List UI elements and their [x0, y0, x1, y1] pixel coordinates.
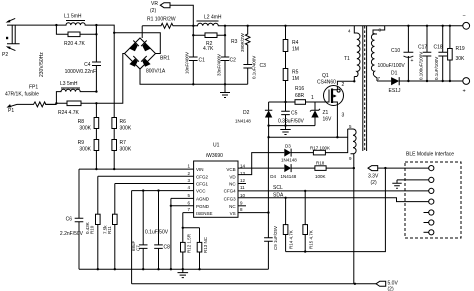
svg-text:R5: R5 [292, 70, 299, 76]
svg-text:VIN: VIN [196, 167, 204, 172]
svg-text:1N4148: 1N4148 [281, 174, 297, 179]
wire L1 node to jog [96, 25, 114, 33]
svg-text:NC: NC [229, 204, 236, 209]
wire CFG2 corner down to R10 [97, 176, 99, 269]
svg-text:R15 4.7K: R15 4.7K [309, 230, 314, 249]
wire HV column down [95, 103, 97, 117]
junction R7/VIN [113, 168, 115, 170]
zener Z1 [310, 102, 332, 126]
wire bridge top corner riser [141, 26, 143, 38]
T1 secondary winding [371, 34, 377, 81]
junction R12/gnd [182, 268, 184, 270]
capacitor C8 [145, 191, 170, 270]
junction R20 right [95, 33, 97, 35]
svg-text:1N4148: 1N4148 [281, 157, 297, 162]
svg-text:3.3V: 3.3V [368, 174, 379, 180]
svg-text:R20 4.7K: R20 4.7K [64, 41, 86, 47]
BLE module interface box [405, 152, 461, 239]
svg-text:11: 11 [240, 185, 245, 190]
bridge rectifier BR1 [125, 38, 170, 75]
wire drain to primary [337, 77, 354, 86]
test point VR [150, 1, 193, 26]
resistor R12 [181, 228, 192, 269]
junction SCL/R15 [304, 190, 306, 192]
VIN row wire [79, 168, 194, 170]
3.3V pullup rail [286, 168, 386, 252]
junction C18 top [442, 25, 444, 27]
junction R3 top [247, 25, 249, 27]
diode D3 [281, 144, 313, 163]
wire bridge bottom to DC- rail [140, 69, 248, 84]
svg-text:0.33uF/50V: 0.33uF/50V [278, 119, 305, 125]
svg-text:47R/1K, fusible: 47R/1K, fusible [5, 92, 39, 98]
svg-text:L1 5mH: L1 5mH [64, 14, 82, 20]
svg-text:C9 1uF/25V: C9 1uF/25V [273, 226, 278, 250]
CFG2 row wire [98, 175, 194, 177]
capacitor C1 [185, 35, 206, 84]
BLE pin 5 [424, 210, 434, 215]
svg-text:PGND: PGND [196, 204, 210, 209]
svg-text:VCB: VCB [226, 167, 235, 172]
junction C17 bottom [426, 80, 428, 82]
svg-text:R8: R8 [78, 119, 85, 125]
svg-text:390R/2W: 390R/2W [240, 32, 245, 52]
svg-text:R7: R7 [120, 140, 127, 146]
secondary pin 8 hook [373, 26, 385, 34]
svg-text:VR: VR [151, 1, 158, 7]
svg-text:ES1J: ES1J [389, 88, 401, 94]
svg-text:2: 2 [342, 82, 345, 88]
junction C17 top [426, 25, 428, 27]
wire AC2 to bridge left corner [96, 54, 124, 104]
svg-text:0.1uF/50V: 0.1uF/50V [145, 230, 169, 236]
resistor R15 [303, 191, 314, 252]
svg-text:R9: R9 [78, 140, 85, 146]
junction aux/5V rail [354, 283, 356, 285]
svg-text:P1: P1 [8, 108, 14, 114]
junction R10/gnd [97, 268, 99, 270]
svg-text:C5: C5 [291, 111, 298, 117]
svg-text:CFG1: CFG1 [196, 182, 208, 187]
capacitor C4 [65, 25, 101, 92]
transformer T1 [344, 26, 382, 169]
resistor R9 [78, 140, 99, 153]
junction drain/primary [353, 80, 355, 82]
svg-text:300K: 300K [120, 126, 132, 132]
junction VS node [267, 136, 269, 138]
CFG1 row wire [115, 183, 194, 185]
junction R2 left [192, 34, 194, 36]
AGND row wire [171, 197, 194, 199]
diode D2 [235, 102, 272, 126]
resistor R14 [283, 198, 293, 252]
wire CFG1 corner down to R11 [114, 184, 116, 270]
junction R19 bottom [449, 80, 451, 82]
ground primary [220, 84, 230, 97]
wire R6-R7 [113, 129, 115, 140]
U1 pin 9 stub [238, 205, 246, 207]
junction L3 left [55, 102, 57, 104]
BLE pin1 wire [385, 167, 428, 169]
junction PGND [170, 205, 172, 207]
svg-text:SDA: SDA [273, 193, 284, 199]
svg-text:R17 100K: R17 100K [310, 146, 330, 151]
svg-text:FP1: FP1 [29, 85, 38, 91]
junction D2 bottom [267, 124, 269, 126]
junction R18/aux [353, 167, 355, 169]
capacitor C5 [278, 102, 305, 126]
IC U1 iW3690 [187, 143, 246, 218]
svg-text:(2): (2) [371, 180, 377, 186]
resistor R16 [295, 86, 306, 104]
ISENSE row wire [183, 213, 194, 228]
BLE pin 2 [429, 177, 434, 182]
svg-text:R24 4.7K: R24 4.7K [58, 110, 80, 116]
svg-text:R13 NC: R13 NC [203, 236, 208, 253]
resistor R17 [310, 146, 346, 155]
junction R24 right [95, 102, 97, 104]
svg-text:30K: 30K [456, 56, 466, 62]
resistor R6 [112, 118, 132, 132]
analog ground rail [79, 268, 268, 270]
svg-text:L3 5mH: L3 5mH [60, 81, 78, 87]
svg-text:VCC: VCC [196, 189, 206, 194]
svg-text:1M: 1M [292, 47, 299, 53]
output terminal minus [463, 14, 470, 30]
junction R4 top [284, 25, 286, 27]
wire aux bottom down [353, 168, 355, 284]
wire R9 to VIN row [95, 151, 97, 170]
junction C2 bottom [224, 83, 226, 85]
inductor L2 [193, 15, 225, 26]
junction VS/C9 [267, 211, 269, 213]
connector P2 [2, 18, 21, 58]
resistor R10 [85, 214, 100, 234]
wire AGND/PGND column [170, 198, 172, 269]
svg-text:230V/50Hz: 230V/50Hz [39, 52, 45, 77]
junction R9/VIN [95, 168, 97, 170]
transistor Q1 [317, 73, 344, 106]
T1 core [363, 26, 367, 151]
BLE pin 7 [424, 230, 434, 235]
ground main [178, 269, 189, 277]
wire R7 to VIN row [113, 151, 115, 170]
wire AC1 column down [113, 33, 115, 118]
junction 3.3V node [384, 167, 386, 169]
svg-text:C10: C10 [391, 48, 400, 54]
junction C5 bottom [284, 124, 286, 126]
wire VCC corner down to 5V rail [131, 191, 133, 284]
junction R15/rail [304, 250, 306, 252]
svg-text:D4: D4 [270, 174, 276, 179]
gate clamp bottom wire [269, 125, 315, 127]
VD wire up to D3 [238, 153, 284, 175]
junction R2 right [224, 34, 226, 36]
svg-text:R18: R18 [316, 161, 325, 166]
svg-text:C1: C1 [199, 58, 206, 64]
resistor R24 [56, 101, 96, 116]
capacitor C3 [243, 56, 266, 85]
resistor R1 [142, 17, 193, 29]
junction C8/gnd [157, 268, 159, 270]
svg-text:BLE Module Interface: BLE Module Interface [406, 152, 454, 158]
svg-text:−: − [463, 14, 466, 20]
svg-text:R4: R4 [292, 40, 299, 46]
diode D1 [377, 71, 463, 95]
svg-text:16V: 16V [323, 117, 333, 123]
svg-text:4.7K: 4.7K [203, 46, 214, 52]
resistor R5 [283, 69, 299, 103]
svg-text:R6: R6 [120, 119, 127, 125]
wire from P2 to L1 node [21, 24, 56, 26]
svg-text:10: 10 [240, 193, 246, 198]
resistor R8 [78, 118, 99, 132]
connector P1 [7, 104, 18, 114]
svg-text:13: 13 [240, 171, 246, 176]
capacitor C7 [131, 191, 148, 270]
svg-text:D3: D3 [285, 144, 291, 149]
VCC row wire [132, 190, 194, 192]
svg-text:P2: P2 [2, 52, 8, 58]
junction source/aux row [336, 136, 338, 138]
wire source down [336, 105, 338, 137]
svg-text:C2: C2 [230, 58, 237, 64]
svg-text:1M: 1M [292, 76, 299, 82]
svg-text:+: + [463, 89, 466, 95]
junction L1 right [95, 24, 97, 26]
junction C10 top [407, 25, 409, 27]
capacitor C10 [378, 26, 414, 81]
junction rail/L2 left [192, 25, 194, 27]
ground gate clamp [280, 126, 290, 135]
svg-text:AGND: AGND [196, 197, 210, 202]
junction node L1 left [55, 24, 57, 26]
resistor R18 [315, 161, 354, 179]
inductor L1 [56, 14, 96, 26]
junction AC1 [113, 32, 115, 34]
svg-text:L2 4mH: L2 4mH [204, 15, 222, 21]
wire FP1 to L3 node [45, 103, 56, 105]
svg-text:2.2nF/50V: 2.2nF/50V [60, 231, 84, 237]
capacitor C18 [434, 26, 448, 81]
capacitor C17 [418, 26, 431, 81]
svg-text:R1 100R/2W: R1 100R/2W [147, 17, 176, 23]
resistor R19 [448, 26, 465, 81]
junction gate row / R5 bottom [284, 101, 286, 103]
T1 aux winding [348, 129, 356, 169]
svg-text:300K: 300K [120, 147, 132, 153]
svg-text:BR1: BR1 [160, 56, 170, 62]
svg-text:C8: C8 [164, 245, 171, 251]
svg-text:C4: C4 [84, 62, 91, 68]
sense node wire [183, 227, 200, 229]
svg-text:R19: R19 [456, 46, 465, 52]
svg-text:3: 3 [342, 113, 345, 119]
U1 pin 12 stub [238, 183, 246, 185]
junction AGND col/gnd [170, 268, 172, 270]
svg-text:VS: VS [230, 211, 236, 216]
svg-text:68R: 68R [295, 93, 305, 99]
svg-text:NC: NC [229, 182, 236, 187]
wire VIN corner down through C6 [78, 169, 80, 269]
svg-text:R16: R16 [295, 86, 304, 92]
svg-text:CS4N60: CS4N60 [317, 80, 336, 86]
junction R11/gnd [114, 268, 116, 270]
svg-text:1000V/0.22nF: 1000V/0.22nF [65, 69, 96, 75]
resistor R4 [283, 26, 299, 69]
svg-text:CFG3: CFG3 [224, 197, 236, 202]
svg-text:800V/1A: 800V/1A [146, 69, 166, 75]
BLE pin 1 [429, 166, 434, 171]
svg-text:100K: 100K [315, 174, 326, 179]
svg-text:+: + [411, 58, 414, 64]
ground BLE [392, 180, 401, 188]
svg-text:Z1: Z1 [323, 110, 329, 116]
junction R13/gnd [198, 268, 200, 270]
svg-text:C7: C7 [136, 245, 141, 251]
svg-text:300K: 300K [79, 126, 91, 132]
svg-text:100uF/100V: 100uF/100V [378, 63, 406, 69]
svg-text:T1: T1 [344, 56, 350, 62]
svg-text:D1: D1 [391, 71, 398, 77]
svg-text:(2): (2) [150, 8, 156, 14]
SCL wire [238, 190, 429, 192]
svg-text:10nF/400V: 10nF/400V [185, 52, 190, 74]
junction L2 right [224, 25, 226, 27]
BLE pin 6 [424, 220, 434, 225]
svg-text:CFG4: CFG4 [224, 189, 236, 194]
svg-text:300K: 300K [79, 147, 91, 153]
junction C8/VCC [157, 189, 159, 191]
capacitor C2 [217, 35, 237, 84]
PGND row wire [171, 205, 194, 207]
svg-text:U1: U1 [213, 143, 220, 149]
svg-text:CFG2: CFG2 [196, 174, 208, 179]
resistor R20 [56, 25, 96, 47]
resistor R3 [231, 26, 250, 64]
svg-text:R11: R11 [107, 226, 112, 234]
svg-text:R3: R3 [231, 39, 238, 45]
svg-text:C3: C3 [260, 63, 267, 69]
DC+ rail to transformer [225, 25, 463, 27]
BLE pin 3 [429, 188, 434, 193]
junction sense/R12 [182, 227, 184, 229]
svg-text:(2): (2) [388, 287, 394, 291]
svg-text:C18: C18 [434, 45, 443, 51]
test point 5.0V [376, 281, 398, 291]
svg-text:SCL: SCL [273, 185, 283, 191]
svg-text:1: 1 [311, 95, 314, 101]
junction C7/VCC [142, 189, 144, 191]
junction C18 bottom [442, 80, 444, 82]
junction C10 bottom [407, 80, 409, 82]
svg-text:C6: C6 [66, 217, 73, 223]
resistor R13 [197, 228, 208, 269]
svg-text:VD: VD [229, 174, 236, 179]
junction L3 right [95, 90, 97, 92]
svg-text:12: 12 [240, 178, 246, 183]
VCB row wire to D4 [238, 167, 284, 169]
output terminal plus [463, 78, 470, 95]
junction R19 top [449, 25, 451, 27]
junction C7/gnd [142, 268, 144, 270]
svg-text:D2: D2 [243, 110, 250, 116]
diode D4 [270, 164, 315, 179]
junction C1 bottom [192, 83, 194, 85]
svg-text:iW3690: iW3690 [206, 153, 223, 159]
resistor R2 [193, 26, 225, 52]
svg-text:1N4148: 1N4148 [235, 119, 251, 124]
5V bottom rail [132, 283, 376, 285]
gate drive wire [269, 101, 323, 103]
wire R8-R9 [95, 129, 97, 140]
svg-text:R10: R10 [90, 225, 95, 234]
inductor L3 [56, 81, 96, 103]
svg-text:0.1uF/100V: 0.1uF/100V [434, 57, 439, 80]
fusible resistor FP1 [5, 85, 56, 107]
test point 3.3V [368, 166, 385, 186]
wire VS node row [269, 126, 348, 138]
resistor R7 [112, 140, 132, 153]
VS row wire [238, 212, 268, 214]
capacitor C6 [60, 217, 84, 238]
junction SDA/R14 [284, 197, 286, 199]
wire AC1 jog to bridge right corner [114, 33, 160, 54]
svg-text:C17: C17 [418, 45, 427, 51]
BLE pin 4 [429, 199, 434, 204]
resistor R11 [103, 214, 118, 234]
svg-text:R12 1.5R: R12 1.5R [187, 233, 192, 253]
svg-text:R14 4.7K: R14 4.7K [289, 230, 294, 249]
svg-text:Q1: Q1 [322, 73, 329, 79]
wire aux top to VD sense [346, 129, 348, 153]
svg-text:0.1uF/400V: 0.1uF/400V [252, 56, 257, 79]
T1 primary winding [354, 26, 360, 77]
svg-text:ISENSE: ISENSE [196, 211, 213, 216]
SDA wire [238, 198, 429, 202]
capacitor C9 [264, 137, 278, 269]
BLE pin2 wire [397, 179, 429, 181]
